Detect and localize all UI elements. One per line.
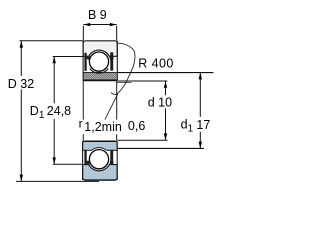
svg-text:0,6: 0,6	[128, 119, 145, 133]
label D 32 (with white backing over dimension line)	[6, 76, 36, 89]
svg-text:24,8: 24,8	[47, 104, 71, 118]
dimension d: bottom arrowhead	[164, 133, 167, 140]
dimension D: top arrowhead	[20, 41, 23, 48]
bore edge of upper inner ring (thick)	[83, 79, 117, 81]
inner ring hatched band (upper)	[83, 72, 117, 80]
label r 1,2min (with white backing)	[75, 120, 123, 135]
dimension d1: top extension line	[117, 72, 213, 74]
dimension d: dimension line	[165, 81, 167, 140]
label d1 17 (with white backing)	[179, 117, 208, 132]
dimension B: extension line right	[116, 26, 118, 41]
ball (lower)	[89, 150, 108, 169]
outer ring (upper section, with raceway groove)	[83, 41, 117, 57]
dimension D: bottom arrowhead	[20, 175, 23, 182]
outer ring band (lower, blue stipple, with raceway groove)	[83, 165, 118, 180]
dimension D: top extension line (collinear with outer ring top face)	[20, 40, 84, 42]
left side face line (lower rings)	[82, 141, 84, 180]
shield groove notch left (lower)	[86, 161, 90, 165]
right side face line (upper rings)	[116, 41, 118, 80]
dimension D1: top extension line	[53, 56, 83, 58]
shield groove notch right (upper)	[109, 56, 114, 60]
ball (upper)	[89, 52, 108, 71]
label d 10 (with white backing)	[146, 95, 172, 108]
svg-text:d: d	[181, 118, 188, 132]
R400 crowned OD arc sweeping from top-right corner of outer ring	[111, 43, 135, 94]
dimension d: bottom extension line	[118, 139, 168, 141]
dimension d1: dimension line	[199, 73, 201, 149]
inner ring raceway groove arc under ball (upper)	[90, 69, 109, 74]
dimension B: left arrowhead	[83, 23, 90, 26]
dimension B: extension line left	[82, 26, 84, 41]
svg-text:D 32: D 32	[8, 77, 34, 91]
label D1 24,8 (with white backing)	[28, 103, 72, 119]
bore silhouette edge right (between sections)	[116, 80, 118, 140]
svg-text:r: r	[79, 116, 83, 130]
recess ledge line right of bore corner	[117, 82, 132, 84]
svg-text:d 10: d 10	[148, 95, 172, 109]
svg-text:B 9: B 9	[88, 8, 107, 22]
svg-text:D: D	[30, 104, 39, 118]
left side face line (upper rings)	[82, 41, 84, 81]
dimension D1: dimension line	[53, 57, 55, 165]
dimension d: top extension line (bore line extended right)	[117, 80, 167, 82]
dimension D: dimension line	[20, 41, 22, 182]
cage bar left of ball (upper)	[84, 53, 86, 71]
dimension B: right arrowhead	[110, 23, 117, 26]
svg-text:1: 1	[188, 123, 194, 134]
dimension D1: bottom arrowhead	[53, 157, 56, 164]
cage bar right of ball (upper)	[110, 52, 113, 70]
svg-text:17: 17	[196, 118, 210, 132]
bore silhouette edge left (between sections)	[82, 81, 84, 141]
dimension B: dimension line	[83, 24, 116, 26]
dimension d1: bottom arrowhead	[199, 142, 202, 149]
dimension d1: bottom extension line	[117, 147, 204, 149]
svg-text:1: 1	[39, 110, 45, 121]
bottom face edge emphasis (lower outer ring)	[84, 179, 116, 181]
chamfer leader from r text to crown arc hook	[104, 94, 118, 122]
bore edge of lower inner ring (thick top)	[84, 140, 115, 142]
inner ring band (lower, blue stipple, with raceway groove)	[83, 141, 118, 150]
svg-text:R 400: R 400	[138, 56, 174, 70]
cage bar right of ball (lower)	[110, 150, 113, 168]
dimension d1: top arrowhead	[199, 73, 202, 80]
dimension d: top arrowhead	[164, 81, 167, 88]
right side face line (lower rings)	[116, 141, 118, 180]
svg-text:1,2min: 1,2min	[84, 120, 122, 134]
dimension D: bottom extension line	[16, 180, 99, 182]
dimension D1: top arrowhead	[53, 57, 56, 64]
shield groove notch left (upper)	[86, 56, 90, 60]
dimension D1: bottom extension line	[53, 163, 83, 165]
shield groove notch right (lower)	[109, 161, 113, 165]
cage bar left of ball (lower)	[84, 150, 86, 168]
